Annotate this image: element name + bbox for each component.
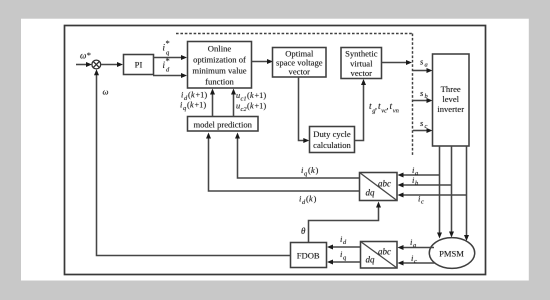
label omega feedback: [103, 87, 109, 97]
wire omega feedback FDOB to junction: [94, 69, 291, 255]
svg-text:k: k: [191, 91, 195, 100]
label id*: [163, 56, 171, 74]
svg-text:Synthetic: Synthetic: [345, 49, 378, 59]
wire optimal down to duty cycle: [299, 77, 310, 143]
wire sb into inverter: [413, 98, 433, 103]
svg-text:k: k: [309, 194, 313, 204]
svg-text:*: *: [166, 56, 170, 66]
wire model prediction to online right: [231, 89, 236, 117]
svg-text:b: b: [425, 93, 428, 100]
ellipse PMSM: [429, 238, 474, 269]
wire iq(k) feedback to model prediction: [235, 133, 360, 179]
wire PI to online id*: [153, 73, 187, 78]
block PI: [124, 55, 154, 75]
label ic lower: [411, 253, 417, 265]
svg-text:c: c: [414, 258, 417, 265]
wire duty cycle up to synthetic: [355, 79, 367, 141]
dashed controller boundary right edge: [412, 34, 414, 157]
wire theta to abc-dq upper: [309, 202, 382, 243]
label uc1(k+1): [236, 91, 266, 103]
svg-text:k: k: [250, 102, 254, 111]
svg-text:inverter: inverter: [437, 104, 464, 114]
wire id(k) feedback to model prediction: [206, 133, 360, 192]
label iq*: [163, 38, 171, 57]
dashed controller boundary top edge: [176, 33, 413, 35]
svg-text:model prediction: model prediction: [193, 120, 252, 130]
wire ia tap to abc-dq: [398, 173, 440, 178]
label iq(k): [301, 165, 319, 178]
label ia lower: [410, 237, 416, 249]
svg-text:*: *: [87, 50, 91, 60]
label omega*: [80, 50, 91, 61]
svg-text:vector: vector: [351, 68, 373, 78]
svg-text:function: function: [205, 77, 234, 87]
wire sa into inverter: [413, 68, 433, 73]
wire phase a inverter to PMSM: [437, 146, 442, 239]
svg-text:θ: θ: [301, 226, 306, 236]
svg-text:level: level: [442, 94, 459, 104]
wire phase b inverter to PMSM: [449, 146, 454, 238]
label sc: [420, 118, 428, 130]
svg-text:a: a: [425, 62, 428, 69]
svg-text:calculation: calculation: [313, 140, 351, 150]
block duty cycle calculation: [310, 127, 355, 153]
svg-text:dq: dq: [366, 188, 376, 198]
svg-text:+1): +1): [196, 91, 208, 100]
svg-text:abc: abc: [378, 247, 391, 257]
label id to FDOB: [340, 234, 347, 246]
svg-text:+1): +1): [255, 91, 267, 100]
block FDOB: [291, 243, 327, 268]
svg-text:dq: dq: [366, 255, 376, 265]
svg-text:ω: ω: [103, 87, 109, 97]
wire iq to FDOB: [327, 260, 361, 265]
svg-text:c: c: [425, 123, 428, 130]
svg-text:Online: Online: [208, 44, 232, 54]
svg-text:ω: ω: [80, 51, 86, 61]
svg-text:,: ,: [375, 102, 377, 111]
svg-text:a: a: [415, 170, 418, 177]
label iq to FDOB: [340, 249, 347, 262]
wire PMSM ia to abc-dq lower: [398, 245, 435, 250]
svg-text:): ): [314, 194, 317, 204]
label sa: [420, 57, 428, 69]
svg-text:minimum value: minimum value: [192, 66, 246, 76]
wire PI to online iq*: [153, 55, 187, 60]
wire model prediction to online left: [210, 89, 215, 117]
svg-text:,: ,: [387, 102, 389, 111]
svg-text:abc: abc: [378, 179, 391, 189]
wire id to FDOB: [327, 245, 361, 250]
block online optimization: [188, 42, 252, 89]
block three level inverter: [433, 54, 470, 146]
svg-text:c1: c1: [241, 96, 247, 103]
block abc-dq lower: [361, 242, 398, 269]
svg-text:): ): [316, 165, 319, 175]
label theta: [301, 226, 306, 236]
svg-text:Three: Three: [441, 84, 461, 94]
svg-text:FDOB: FDOB: [297, 251, 320, 261]
wire PMSM ic to abc-dq lower: [398, 261, 436, 266]
svg-text:k: k: [190, 101, 194, 110]
svg-text:k: k: [311, 165, 315, 175]
summing junction: [92, 60, 101, 69]
svg-text:b: b: [415, 180, 418, 187]
svg-text:+1): +1): [255, 102, 267, 111]
wire online to optimal: [252, 59, 274, 64]
wire ic tap to abc-dq: [398, 193, 467, 198]
block synthetic virtual vector: [341, 48, 382, 79]
svg-text:PI: PI: [135, 60, 143, 70]
label id(k): [299, 194, 317, 207]
wire sc into inverter: [413, 128, 433, 133]
label uc2(k+1): [236, 102, 266, 114]
label ia: [412, 165, 418, 177]
block abc-dq upper: [360, 173, 398, 201]
svg-text:optimization of: optimization of: [193, 55, 246, 65]
svg-text:vector: vector: [289, 67, 311, 77]
block model prediction: [188, 117, 259, 132]
svg-text:vn: vn: [393, 108, 399, 115]
wire junction to PI: [101, 62, 123, 67]
wire phase c inverter to PMSM: [464, 146, 469, 241]
label ic: [418, 194, 424, 206]
svg-text:Duty cycle: Duty cycle: [313, 129, 351, 139]
outer border frame: [65, 26, 486, 275]
label tg tvc tvn: [369, 102, 399, 115]
wire synthetic to dashed border: [382, 60, 413, 65]
svg-text:*: *: [166, 38, 170, 48]
wire omega* input arrow: [76, 62, 92, 67]
svg-text:+1): +1): [195, 101, 207, 110]
label id(k+1): [181, 91, 207, 103]
svg-text:virtual: virtual: [350, 59, 373, 69]
wire ib tap to abc-dq: [398, 183, 452, 188]
svg-text:PMSM: PMSM: [439, 249, 464, 259]
svg-text:c: c: [421, 199, 424, 206]
block optimal space voltage vector: [273, 48, 327, 78]
label sb: [420, 88, 428, 100]
svg-text:k: k: [250, 91, 254, 100]
label ib: [412, 175, 418, 187]
label iq(k+1): [180, 101, 206, 113]
svg-text:a: a: [413, 242, 416, 249]
